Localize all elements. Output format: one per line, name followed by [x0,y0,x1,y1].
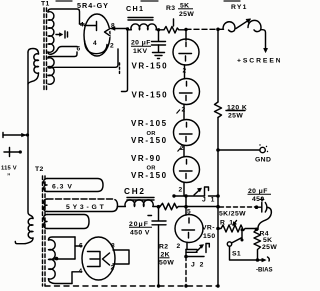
svg-text:150: 150 [203,233,216,240]
svg-text:25W: 25W [179,11,194,18]
svg-text:50W: 50W [159,260,174,267]
svg-text:4: 4 [93,40,97,47]
svg-text:2: 2 [183,68,187,75]
svg-text:25W: 25W [262,244,277,251]
svg-text:2: 2 [110,43,114,50]
svg-text:J 1: J 1 [202,197,216,204]
svg-text:450: 450 [252,196,265,203]
svg-text:T1: T1 [41,1,50,8]
svg-text:+SCREEN: +SCREEN [237,58,280,65]
svg-text:450 V: 450 V [130,230,150,237]
svg-text:4: 4 [79,268,83,275]
svg-text:VR-150: VR-150 [131,171,168,180]
svg-text:VR-90: VR-90 [131,154,162,163]
svg-text:S1: S1 [232,251,241,258]
svg-text:6.3 V: 6.3 V [52,184,73,191]
svg-text:R 1: R 1 [220,220,234,227]
svg-text:2: 2 [111,265,115,272]
svg-text:T2: T2 [35,166,44,173]
svg-text:2: 2 [177,243,181,250]
svg-text:5K/25W: 5K/25W [219,211,246,218]
svg-text:1KV: 1KV [133,48,147,55]
svg-text:5K: 5K [263,237,273,244]
svg-text:5: 5 [187,209,191,216]
svg-text:R3: R3 [166,5,176,12]
svg-text:R2: R2 [159,244,169,251]
svg-text:6: 6 [79,243,83,250]
svg-text:5R4-GY: 5R4-GY [77,1,109,10]
svg-text:CH1: CH1 [126,4,144,13]
svg-text:VR-105: VR-105 [131,119,168,128]
svg-text:J 2: J 2 [191,262,205,269]
svg-text:120 K: 120 K [227,105,247,112]
svg-text:115 V: 115 V [1,166,17,172]
svg-text:5Y3-GT: 5Y3-GT [66,204,107,211]
svg-text:6: 6 [77,46,81,53]
svg-text:2: 2 [179,187,183,194]
svg-text:4: 4 [80,22,84,29]
svg-text:VR-150: VR-150 [131,136,168,145]
svg-text:VR-: VR- [202,225,215,232]
svg-text:CH2: CH2 [124,187,146,196]
svg-text:8: 8 [111,243,115,250]
svg-text:8: 8 [111,23,115,30]
svg-text:RY1: RY1 [231,4,248,11]
svg-text:25W: 25W [228,113,243,120]
svg-text:2: 2 [182,107,186,114]
svg-text:VR-150: VR-150 [132,91,169,100]
svg-text:-BIAS: -BIAS [256,267,273,274]
svg-text:20 μF: 20 μF [131,40,151,47]
svg-text:VR-150: VR-150 [132,62,169,71]
svg-text:”: ” [7,173,11,180]
svg-text:GND: GND [255,157,271,164]
